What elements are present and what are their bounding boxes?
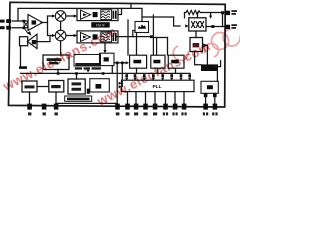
- right pin 2: [225, 25, 230, 29]
- input pin stub 2: [0, 26, 11, 30]
- wire mixer2 to IF box: [66, 35, 76, 37]
- wire pin1 to amp: [12, 20, 28, 22]
- bus wire over PLL: [110, 72, 190, 74]
- mixer M1: [55, 11, 66, 22]
- counter box B: [151, 55, 165, 68]
- wire VCO to PD: [195, 31, 197, 38]
- wire L1 leg: [29, 92, 31, 104]
- wire A2 output: [37, 36, 50, 42]
- ceramic filter row1: [101, 10, 112, 20]
- oscillator box: [43, 55, 69, 70]
- arrow PD out right: [203, 43, 207, 47]
- output bars row1: [113, 11, 115, 19]
- wire crossover X: [24, 21, 29, 34]
- junction bar L3/L4: [87, 89, 90, 94]
- wire row1 out: [118, 8, 122, 14]
- gain block row1: [93, 12, 98, 17]
- watermark logo arcs: [173, 29, 240, 60]
- buffer legs: [205, 93, 207, 103]
- bus wire left: [21, 72, 111, 74]
- LO wire between mixers: [60, 21, 62, 30]
- IF label black box: [91, 22, 109, 27]
- PD box: [190, 38, 203, 52]
- svg-text:PLL: PLL: [152, 84, 161, 90]
- arrow into mixer2: [52, 34, 55, 37]
- wire PD bottom: [195, 52, 201, 65]
- box L3: [68, 79, 85, 94]
- LO wire from oscillator: [60, 41, 62, 55]
- input pin stub 1: [0, 19, 11, 23]
- bottom bus wire: [56, 102, 117, 104]
- PLL box: [122, 80, 195, 91]
- IC outer border: [9, 2, 226, 107]
- gain block row2: [93, 34, 98, 39]
- PLL bottom legs: [127, 92, 129, 104]
- flat box bottom: [65, 96, 92, 101]
- wire L1-L2: [37, 86, 49, 88]
- reg box L1: [22, 81, 37, 92]
- reg box L2: [49, 81, 64, 93]
- watermark streak 1: [0, 23, 119, 94]
- wire mixer1 to IF box: [66, 15, 76, 17]
- right pin 1 label: [231, 10, 237, 15]
- junction dot mid: [150, 35, 153, 38]
- wire osc down: [57, 70, 59, 74]
- quadrature box: [135, 22, 149, 33]
- mixer M2: [55, 30, 66, 41]
- AGC detector bar: [19, 66, 27, 69]
- arrow down from top wire: [210, 13, 212, 17]
- wire to pll left: [116, 64, 118, 103]
- op-amp A2 (AGC amp, points left): [27, 34, 37, 48]
- VCO box: [189, 18, 206, 31]
- vertical drops from counters: [136, 68, 138, 73]
- arrow decoder down: [86, 70, 89, 73]
- demod box: [100, 53, 115, 65]
- arrow on input wire: [23, 20, 27, 23]
- wire L3 up: [76, 73, 78, 79]
- output bars row2: [113, 33, 115, 41]
- vertical wire x136 from quad box: [136, 33, 138, 56]
- vertical wire x173.6: [174, 17, 180, 26]
- wire row2 to demod: [104, 43, 106, 52]
- arrow into mixer1: [52, 14, 55, 17]
- watermark streak 2: [94, 38, 213, 109]
- junction dots input: [23, 20, 26, 29]
- wire pinR1 down to pinR2: [222, 13, 224, 27]
- junction dot R: [221, 11, 224, 14]
- wire resistor left: [184, 13, 186, 18]
- top border stub: [130, 4, 132, 8]
- wire junction right of VCO: [206, 26, 225, 28]
- arrows into PLL top: [125, 78, 191, 81]
- right pin 2 label: [231, 24, 237, 29]
- B3 bottom leg: [111, 66, 113, 74]
- vertical wire x156.5: [156, 38, 158, 56]
- right pin 1: [225, 11, 230, 15]
- vertical wire x167.5: [167, 38, 169, 56]
- AGC feedback wire down: [20, 46, 22, 67]
- AGC box left: [20, 37, 28, 46]
- wire row2 out right: [117, 36, 151, 38]
- inner top rail wire: [18, 8, 142, 21]
- VCO top stub: [197, 13, 199, 18]
- stereo decoder box: [74, 55, 101, 67]
- amp triangle row1: [81, 10, 91, 19]
- horizontal wire y37.5: [153, 37, 167, 39]
- right corner wire: [215, 61, 221, 67]
- wire L2 leg: [55, 92, 57, 104]
- vertical wire x153: [152, 15, 154, 55]
- wire quad box left: [133, 31, 135, 37]
- wire demod out: [114, 62, 126, 64]
- IF amp/filter row 1 box: [77, 9, 118, 21]
- resistor R: [185, 10, 203, 14]
- op-amp A1 (RF amp): [28, 15, 43, 31]
- black mute box: [201, 64, 218, 71]
- bus ticks: [125, 74, 191, 77]
- wire resistor to pin: [202, 12, 225, 14]
- amp triangle row2: [81, 33, 91, 42]
- vertical wire x128: [127, 20, 129, 55]
- counter box C: [168, 55, 184, 68]
- IO buffer box right: [201, 81, 218, 93]
- IF amp/filter row 2 box: [77, 31, 118, 43]
- wire amp A1 to mixers: [41, 16, 53, 23]
- ceramic filter row2: [101, 32, 112, 42]
- wire mute down: [216, 71, 218, 81]
- counter box A: [130, 55, 147, 68]
- bottom pins: [27, 104, 217, 110]
- arrow into VCO: [185, 24, 189, 27]
- wire pin2 to amp: [12, 27, 28, 29]
- arrowhead on crossover: [27, 31, 32, 36]
- pin numbers: [28, 112, 218, 115]
- top wire y17: [142, 16, 174, 18]
- box L4: [90, 79, 110, 92]
